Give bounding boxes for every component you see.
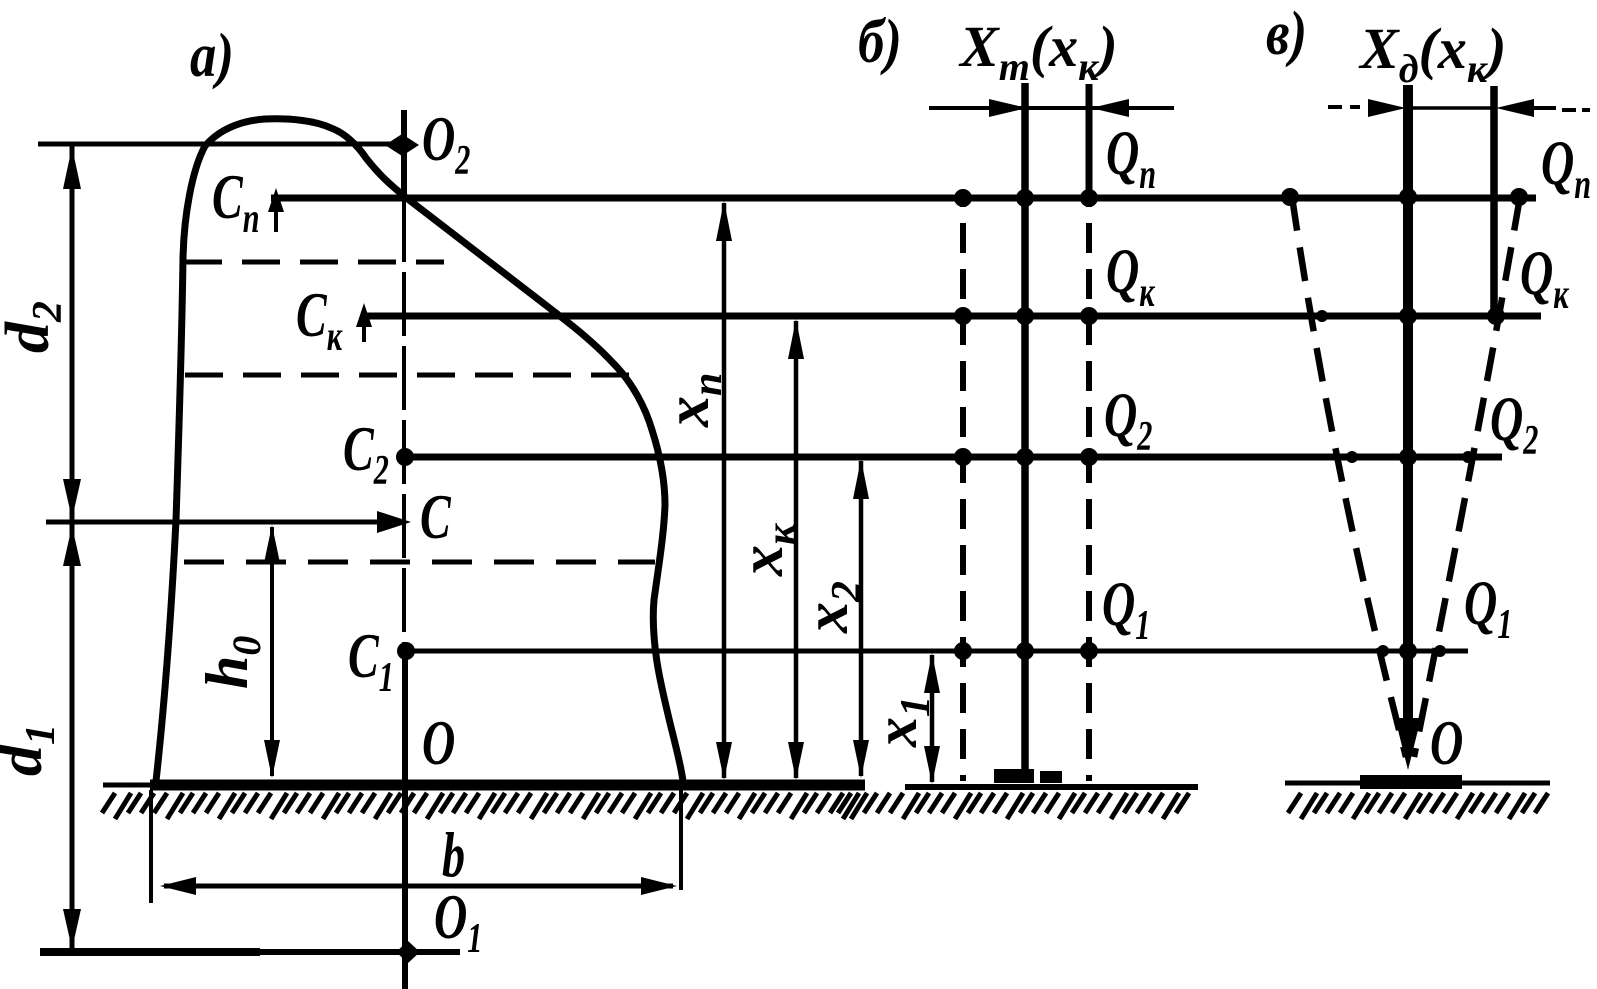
extension line b right bbox=[679, 788, 683, 890]
line C1-Q1 level bbox=[406, 649, 1468, 654]
node O1 dot bbox=[396, 941, 420, 963]
svg-text:C: C bbox=[420, 482, 451, 553]
line Cp-Qp level bbox=[271, 195, 1536, 202]
dimension b line bbox=[164, 884, 673, 889]
section v): main column axis bbox=[1403, 85, 1413, 730]
deflected axis dashed right bbox=[1414, 197, 1520, 757]
deflected axis dashed left bbox=[1292, 197, 1406, 757]
node C1 dot bbox=[397, 642, 415, 660]
line C2-Q2 level bbox=[404, 454, 1502, 461]
arrow down at O bbox=[1395, 718, 1421, 770]
arrow marker Ck bbox=[362, 318, 366, 342]
junction dots column b bbox=[954, 189, 1098, 660]
arrow marker Cp bbox=[274, 198, 278, 232]
ground line v bbox=[1285, 781, 1550, 786]
svg-text:в): в) bbox=[1266, 0, 1307, 68]
extension line b left bbox=[149, 790, 153, 903]
svg-text:O: O bbox=[1430, 708, 1463, 779]
ground hatching b bbox=[838, 793, 1189, 819]
ground hatching a bbox=[102, 793, 859, 819]
arrow d1 bottom bbox=[63, 909, 81, 949]
dimension xk bbox=[794, 321, 799, 778]
section a): tower profile outline bbox=[156, 119, 683, 781]
foundation pads b bbox=[994, 769, 1034, 783]
section b): left dashed axis bbox=[960, 198, 966, 781]
dimension Xt line bbox=[929, 106, 1174, 110]
dimension Xd line bbox=[1328, 105, 1342, 109]
dashed level line 3 bbox=[184, 560, 655, 565]
section b): displaced axis top solid bbox=[1086, 84, 1093, 198]
node O2 dot bbox=[385, 134, 419, 156]
svg-text:b: b bbox=[442, 820, 465, 891]
node C2 dot bbox=[396, 448, 414, 466]
dimension x1 bbox=[930, 655, 935, 782]
dashed level line 1 bbox=[184, 260, 444, 265]
ground line b bbox=[905, 784, 1198, 790]
ground bar a bbox=[103, 783, 150, 788]
dimension xp bbox=[722, 203, 727, 778]
dimension vertical d bbox=[70, 144, 75, 952]
svg-text:а): а) bbox=[190, 22, 234, 90]
ground hatching v bbox=[1288, 793, 1548, 819]
line O1 level bbox=[40, 948, 260, 956]
dashed level line 2 bbox=[185, 373, 640, 378]
svg-text:б): б) bbox=[858, 8, 902, 76]
arrow d2 top bbox=[63, 147, 81, 189]
arrow d1 top bbox=[63, 526, 81, 566]
svg-text:O: O bbox=[422, 708, 455, 779]
line Ck-Qk level bbox=[364, 313, 1541, 320]
centerline axis a bbox=[401, 110, 407, 198]
arrow C pointing right bbox=[377, 511, 411, 533]
section v): right axis top bbox=[1490, 86, 1498, 316]
arrow d2 bottom bbox=[63, 479, 81, 519]
dimension x2 bbox=[859, 461, 864, 776]
foundation pad v bbox=[1360, 775, 1462, 789]
dimension h0 bbox=[270, 527, 274, 776]
section b): displaced axis dashed bbox=[1086, 198, 1092, 781]
line C level bbox=[46, 520, 396, 525]
junction dots column v bbox=[1281, 188, 1528, 660]
top level line O2 bbox=[38, 142, 404, 147]
section b): column axis solid bbox=[1021, 83, 1029, 781]
